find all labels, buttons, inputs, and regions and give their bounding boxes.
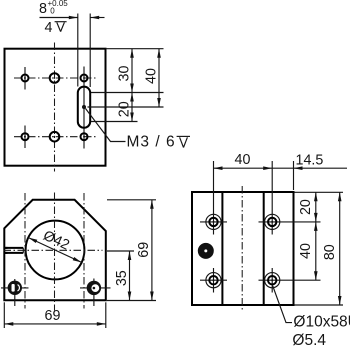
hole small row2 col1 <box>22 133 29 140</box>
screw head right <box>87 281 101 295</box>
svg-text:35: 35 <box>114 270 130 286</box>
crosshair row1 left hole <box>200 221 227 223</box>
svg-text:4: 4 <box>45 20 53 36</box>
extension line front top edge right <box>107 199 156 201</box>
hole M-center row1 col2 <box>50 73 60 83</box>
bore circle <box>26 221 85 280</box>
centerline col1 front <box>24 193 26 309</box>
slit edge thick marks <box>4 247 8 249</box>
inner edge line left <box>221 192 223 305</box>
clamp slit end cap <box>22 248 24 253</box>
svg-text:80: 80 <box>322 244 338 260</box>
extension line top edge right <box>106 48 164 50</box>
svg-text:14.5: 14.5 <box>296 153 324 169</box>
svg-text:20: 20 <box>116 101 132 117</box>
counterbored hole row2 col2 <box>265 273 280 288</box>
crosshair bottom-right screw hole <box>80 287 111 289</box>
clamp slit bottom line <box>4 252 23 254</box>
slot edge extension line right <box>89 14 91 88</box>
hole small row1 col1 <box>22 75 29 82</box>
leader counterbore callout <box>273 286 292 323</box>
top dimension line 40 / 14.5 <box>214 167 348 169</box>
vertical centerline col 3 / slot <box>83 67 85 149</box>
svg-text:40: 40 <box>143 68 159 84</box>
extension line slot upper hole <box>91 92 164 94</box>
slot obround <box>78 87 90 128</box>
svg-text:69: 69 <box>45 308 61 324</box>
centerline col3 front <box>83 193 85 309</box>
extension line bore center right <box>107 250 134 252</box>
dimension 40 <box>158 49 160 107</box>
counterbored hole row2 col1 <box>206 273 221 288</box>
hole M-center row2 col2 <box>50 132 60 142</box>
vertical centerline top view <box>54 43 56 172</box>
extension line right edge up <box>293 161 295 190</box>
hole small row1 col3 <box>81 75 88 82</box>
crosshair row2 left hole <box>200 279 227 281</box>
vertical centerline side view <box>241 186 243 311</box>
horizontal centerline hole row 2 <box>14 136 96 138</box>
counterbored hole row1 col1 <box>206 214 221 229</box>
dimension 35 <box>129 251 131 301</box>
counterbored hole row1 col2 <box>265 214 280 229</box>
slot center dot <box>82 105 86 109</box>
crosshair + extension row2 right hole <box>259 279 321 281</box>
dimension 20 right <box>315 192 317 222</box>
screw head left (filled) <box>8 281 22 295</box>
vertical centerline col 1 holes <box>24 67 26 90</box>
clamp slit top line <box>4 247 23 249</box>
svg-text:8: 8 <box>39 1 47 17</box>
dimension line 8 <box>40 17 78 19</box>
svg-text:Ø5.4: Ø5.4 <box>292 332 326 348</box>
svg-text:M3 / 6: M3 / 6 <box>127 134 176 151</box>
plate outline top view <box>5 49 106 166</box>
svg-text:69: 69 <box>136 242 152 258</box>
extension line slot lower hole <box>91 121 138 123</box>
extension line bottom edge right <box>295 304 344 306</box>
extension line slot center <box>88 106 164 108</box>
dimension 30 <box>131 49 133 93</box>
dimension 69 bottom <box>4 323 106 325</box>
horizontal centerline through bore <box>4 249 103 251</box>
side outline <box>192 192 294 305</box>
dimension 20 (slot holes) <box>131 93 133 122</box>
svg-text:20: 20 <box>298 199 314 215</box>
slit relief hole (filled) <box>198 243 214 259</box>
crosshair bottom-left screw hole <box>1 287 29 289</box>
inner edge line right <box>263 192 265 305</box>
front outline with chamfered top corners <box>4 200 106 300</box>
depth symbol for M3 <box>177 136 190 147</box>
leader M3 <box>86 109 126 142</box>
depth symbol for 4 <box>55 22 67 32</box>
svg-text:Ø10x58U: Ø10x58U <box>293 313 350 330</box>
svg-text:0: 0 <box>50 6 55 15</box>
extension line top edge right <box>295 191 344 193</box>
centerline mid front <box>54 193 56 311</box>
diameter dimension line Ø42 <box>28 238 81 263</box>
extension line bottom-right corner down <box>105 302 107 328</box>
slot edge extension line left <box>77 14 79 87</box>
hole small row2 col3 <box>81 133 88 140</box>
horizontal centerline hole row 1 <box>14 77 96 79</box>
svg-text:40: 40 <box>235 152 251 168</box>
dimension 80 right <box>339 192 341 305</box>
extension line bottom-left corner down <box>3 302 5 328</box>
dimension 40 right <box>315 222 317 280</box>
svg-text:30: 30 <box>116 66 132 82</box>
crosshair + extension row1 right hole <box>259 221 321 223</box>
dimension 69 right <box>151 200 153 301</box>
extension line front bottom edge right <box>107 300 156 302</box>
svg-text:40: 40 <box>298 243 314 259</box>
